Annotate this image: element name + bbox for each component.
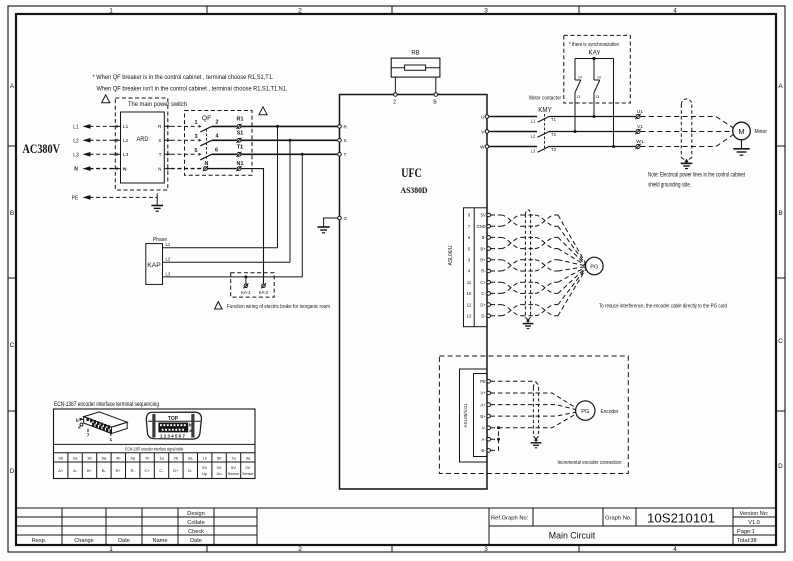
terminal UFC T	[338, 153, 342, 157]
svg-text:2: 2	[298, 8, 302, 15]
wire N to N1	[208, 168, 237, 170]
svg-text:T1: T1	[551, 117, 557, 122]
wire W1 to motor (dashed)	[641, 135, 733, 147]
svg-text:C: C	[778, 338, 783, 345]
junction A- jumper	[497, 438, 500, 441]
svg-text:Version No:: Version No:	[740, 511, 769, 517]
svg-text:B-: B-	[102, 468, 107, 473]
svg-text:C+: C+	[480, 280, 486, 285]
svg-text:L3: L3	[166, 271, 171, 276]
ECN table signal row	[58, 465, 254, 476]
svg-text:C: C	[10, 342, 15, 349]
zone ticks right	[776, 146, 785, 411]
svg-text:T3: T3	[551, 147, 557, 152]
svg-text:C+: C+	[144, 468, 150, 473]
svg-text:B+: B+	[481, 246, 487, 251]
terminal UFC R	[338, 125, 342, 129]
wire ARD N to QF	[171, 168, 203, 170]
wire B+ to encoder (dashed)	[491, 412, 576, 416]
ground under motor	[733, 140, 749, 155]
svg-text:0V: 0V	[217, 465, 222, 470]
svg-text:A+: A+	[58, 468, 64, 473]
svg-text:L1: L1	[166, 242, 171, 247]
svg-text:7a: 7a	[231, 455, 236, 460]
svg-text:C-: C-	[159, 468, 164, 473]
svg-text:Motor: Motor	[755, 129, 768, 135]
wire T1 to UFC T	[241, 153, 337, 155]
wire L1 to ARD (dashed)	[90, 125, 116, 127]
svg-text:KA-1: KA-1	[241, 290, 251, 295]
svg-text:Design: Design	[187, 511, 204, 517]
encoder strip terminal circles	[487, 380, 491, 453]
svg-text:3a: 3a	[246, 455, 251, 460]
svg-text:T: T	[159, 152, 162, 158]
svg-text:B: B	[778, 210, 782, 217]
svg-text:ECN-1387 encoder interface sig: ECN-1387 encoder interface signal table	[125, 447, 183, 452]
wire S tap down to KAP L2	[289, 140, 291, 262]
wire U to KMY L1	[489, 116, 537, 118]
PG terminal strip ASL06/U	[464, 208, 488, 327]
wire G to ground	[324, 218, 338, 227]
svg-text:B+: B+	[87, 468, 93, 473]
svg-text:RB: RB	[411, 51, 419, 57]
warning triangle 2	[259, 107, 267, 115]
terminal KA-2	[261, 283, 266, 288]
svg-text:3: 3	[195, 134, 198, 140]
svg-text:QF: QF	[202, 115, 212, 122]
svg-text:V+: V+	[480, 391, 486, 396]
encoder cable pair R+/R-	[491, 260, 586, 271]
svg-text:b: b	[76, 418, 79, 423]
svg-text:ECN-1387 encoder interface ter: ECN-1387 encoder interface terminal sequ…	[54, 401, 159, 408]
QF linkage (dashed)	[205, 129, 207, 160]
resistor element	[405, 65, 426, 70]
ground motor shield	[681, 160, 693, 169]
svg-text:Collate: Collate	[187, 520, 204, 526]
wire A+ to encoder (dashed)	[491, 405, 576, 410]
svg-text:L3: L3	[531, 148, 536, 153]
svg-text:13: 13	[467, 314, 472, 319]
svg-text:A+: A+	[480, 402, 486, 407]
terminal V1	[635, 129, 640, 134]
note: QF breaker placement	[93, 74, 288, 93]
terminal UFC S	[338, 139, 342, 143]
svg-text:AC380V: AC380V	[23, 142, 61, 156]
svg-text:0V: 0V	[245, 465, 250, 470]
QF pole 1-2 (R)	[195, 120, 219, 132]
terminal UFC V	[485, 130, 489, 134]
svg-text:R: R	[158, 124, 162, 130]
version / page box	[737, 511, 769, 544]
svg-text:B-: B-	[482, 235, 487, 240]
KAY right wire to W line	[613, 59, 615, 147]
junction on L3	[244, 275, 247, 278]
svg-text:2a: 2a	[73, 455, 78, 460]
ECN table pin row	[58, 455, 250, 460]
inverter UFC AS380D body	[340, 95, 488, 490]
wire B- jumper (dashed)	[491, 428, 499, 451]
strip divider	[473, 208, 475, 327]
svg-text:KAY: KAY	[589, 50, 602, 57]
svg-text:KMY: KMY	[538, 107, 552, 114]
junction KAY left to V line	[574, 130, 577, 133]
encoder cable shield	[533, 381, 538, 439]
top view pin block	[158, 423, 188, 433]
breaker QF enclosure (dashed)	[185, 111, 253, 176]
power switch ARD body	[121, 112, 165, 183]
arrow PE	[83, 195, 91, 200]
wire L2 to ARD	[90, 139, 116, 141]
wire QF 4 to terminal S1	[212, 139, 237, 141]
svg-text:PG: PG	[581, 409, 589, 415]
wire T1 to U1	[549, 116, 636, 118]
title block grid	[16, 508, 776, 545]
KAY contact middle (13-14)	[594, 59, 600, 117]
top view side bars	[152, 414, 155, 438]
zone letters left	[10, 83, 15, 475]
svg-text:Sensor: Sensor	[242, 472, 254, 476]
svg-text:L2: L2	[166, 257, 171, 262]
svg-text:Motor contactor: Motor contactor	[529, 96, 561, 102]
svg-text:B+: B+	[480, 414, 486, 419]
wire RB to terminal B	[435, 77, 437, 93]
svg-text:T2: T2	[551, 132, 557, 137]
svg-text:U: U	[481, 114, 485, 120]
svg-text:1: 1	[110, 437, 113, 443]
encoder cable pair D+/D-	[491, 269, 586, 316]
svg-text:5V: 5V	[202, 465, 207, 470]
svg-text:S1: S1	[237, 131, 244, 137]
svg-text:A-: A-	[73, 468, 78, 473]
svg-text:1: 1	[195, 120, 198, 126]
svg-text:S: S	[158, 138, 161, 144]
svg-text:R1: R1	[237, 117, 244, 123]
svg-text:N: N	[205, 161, 209, 167]
svg-text:* When QF breaker is in the co: * When QF breaker is in the control cabi…	[93, 74, 274, 81]
terminal KA-1	[243, 283, 248, 288]
svg-text:ASL06/V.01: ASL06/V.01	[463, 403, 468, 428]
svg-text:Sensor: Sensor	[228, 472, 240, 476]
svg-text:R+: R+	[480, 258, 486, 263]
resistor leads	[391, 67, 440, 69]
wire V+ to encoder (dashed)	[491, 393, 576, 408]
svg-text:5: 5	[195, 148, 198, 154]
wire down to KA-1	[245, 277, 247, 284]
wire S1 to UFC S	[241, 139, 337, 141]
svg-text:Main Circuit: Main Circuit	[549, 531, 596, 541]
svg-text:1b: 1b	[202, 455, 207, 460]
wire N1 down to KA-2	[241, 169, 264, 284]
top view band line	[148, 420, 201, 422]
svg-text:W: W	[480, 144, 485, 150]
brake wiring enclosure KA (dashed)	[231, 273, 275, 297]
svg-text:Function wiring of electric br: Function wiring of electric brake for in…	[227, 304, 330, 310]
svg-text:5a: 5a	[102, 455, 107, 460]
ARD enclosure (dashed)	[115, 98, 168, 190]
svg-text:Incremental encoder connection: Incremental encoder connection	[558, 460, 622, 466]
junction V- jumper	[497, 426, 500, 429]
wire U1 to motor (dashed)	[641, 117, 733, 128]
svg-text:GND: GND	[476, 224, 485, 229]
svg-text:1234567: 1234567	[160, 433, 186, 438]
wire QF 2 to terminal R1	[212, 125, 237, 127]
wire T2 to V1	[549, 131, 636, 133]
svg-text:L1: L1	[531, 118, 536, 123]
terminal S1	[236, 138, 241, 143]
svg-text:3: 3	[484, 8, 488, 15]
wire R1 to UFC R	[241, 125, 337, 127]
KMY contact L3-T3	[538, 147, 550, 153]
encoder strip pin labels	[480, 379, 486, 453]
svg-text:D: D	[10, 468, 15, 475]
ARD pin labels right R S T N	[158, 124, 162, 172]
svg-text:L2: L2	[73, 138, 79, 144]
svg-text:1: 1	[109, 8, 113, 15]
connector pins (iso)	[87, 418, 112, 434]
svg-text:Encoder: Encoder	[601, 409, 619, 415]
junction S tap	[289, 139, 292, 142]
zone ticks top	[207, 6, 579, 14]
junction KAY right to W line	[612, 145, 615, 148]
svg-text:7: 7	[87, 433, 90, 439]
svg-text:PE: PE	[72, 195, 79, 201]
svg-text:* there is synchronization: * there is synchronization	[569, 42, 619, 48]
junction T tap	[301, 153, 304, 156]
svg-text:2: 2	[216, 120, 219, 126]
KAY bus wire	[575, 58, 614, 60]
junction R tap	[276, 125, 279, 128]
svg-text:L2: L2	[123, 138, 129, 144]
svg-text:2: 2	[393, 100, 396, 106]
pin signal column	[476, 213, 486, 319]
svg-text:PG: PG	[590, 264, 598, 270]
svg-text:shield grounding side.: shield grounding side.	[648, 183, 691, 189]
wire ARD R to QF (dashed)	[171, 125, 198, 127]
svg-text:B-: B-	[482, 448, 487, 453]
svg-text:To reduce interference, the en: To reduce interference, the encoder cabl…	[599, 303, 727, 309]
svg-text:AS380D: AS380D	[401, 186, 428, 195]
svg-text:Check: Check	[188, 529, 204, 535]
svg-text:R+: R+	[116, 468, 122, 473]
svg-text:4: 4	[673, 8, 677, 15]
braking resistor RB box	[391, 58, 440, 77]
svg-text:7b: 7b	[145, 455, 150, 460]
zone ticks left	[8, 146, 16, 411]
ARD pin stubs left	[113, 125, 121, 170]
svg-text:N1: N1	[237, 161, 244, 167]
ECN connector isometric view	[84, 412, 128, 434]
wire RB to terminal 2	[394, 77, 396, 93]
svg-text:G: G	[344, 216, 348, 222]
svg-text:2b: 2b	[174, 455, 179, 460]
KAY contact left (13-14)	[575, 59, 581, 132]
zone numbers top	[109, 8, 677, 15]
wire V to KMY L2	[489, 131, 537, 133]
svg-text:Graph No.: Graph No.	[605, 516, 632, 522]
svg-text:4: 4	[673, 546, 677, 553]
svg-text:R-: R-	[481, 269, 486, 274]
ARD pin stubs right	[164, 125, 171, 170]
svg-text:13: 13	[596, 95, 600, 99]
zone numbers bottom	[109, 546, 677, 553]
svg-text:D-: D-	[481, 314, 486, 319]
svg-text:V-: V-	[482, 426, 487, 431]
PG card circle	[586, 257, 604, 275]
wire ARD S to QF	[171, 139, 198, 141]
svg-text:3: 3	[484, 546, 488, 553]
svg-text:C-: C-	[481, 291, 486, 296]
wire KAP L1	[163, 247, 278, 249]
ECN-1387 table lines	[54, 444, 256, 478]
encoder PG circle	[576, 401, 595, 420]
svg-text:Resp.: Resp.	[32, 538, 47, 544]
svg-text:2: 2	[298, 546, 302, 553]
svg-text:TOP: TOP	[168, 416, 179, 422]
svg-text:4b: 4b	[116, 455, 121, 460]
wire V- to encoder (dashed)	[491, 414, 576, 428]
wire QF 6 to terminal T1	[212, 153, 237, 155]
svg-text:A: A	[10, 83, 15, 90]
encoder cable pair C+/C-	[491, 267, 586, 293]
wire W to KMY L3	[489, 146, 537, 148]
svg-text:6a: 6a	[188, 455, 193, 460]
svg-text:KAP: KAP	[147, 262, 161, 269]
motor M	[733, 122, 751, 140]
svg-text:L3: L3	[73, 152, 79, 158]
svg-text:Note: Electrical power lines i: Note: Electrical power lines in the cont…	[648, 173, 745, 179]
svg-text:N: N	[158, 166, 162, 172]
svg-text:Up: Up	[202, 471, 208, 476]
arrow L2	[83, 138, 91, 143]
QF pole 5-6 (T)	[195, 148, 219, 160]
svg-text:6b: 6b	[58, 455, 63, 460]
svg-text:Ref.Graph No:: Ref.Graph No:	[491, 516, 529, 522]
terminal N (QF)	[203, 166, 208, 171]
svg-text:b: b	[189, 422, 192, 427]
title block small labels	[32, 511, 205, 544]
svg-text:L1: L1	[123, 124, 129, 130]
svg-text:5b: 5b	[217, 455, 222, 460]
wire KAP L2	[163, 261, 291, 263]
junction KAY middle to U line	[593, 115, 596, 118]
svg-text:V1: V1	[637, 124, 643, 130]
svg-text:When QF breaker isn't in the c: When QF breaker isn't in the control cab…	[97, 86, 288, 93]
wire N to ARD	[90, 168, 116, 170]
terminal 2 (UFC top)	[394, 93, 398, 97]
svg-text:S: S	[344, 138, 347, 144]
svg-text:1: 1	[109, 546, 113, 553]
encoder cable pair B-/B+	[491, 237, 586, 265]
junction KAY bus	[592, 57, 595, 60]
wire KAP L3	[163, 276, 303, 278]
ground under ARD (PE)	[151, 194, 163, 212]
zone ticks bottom	[207, 545, 579, 552]
QF pole 3-4 (S)	[195, 134, 219, 146]
phase relay KAP	[146, 244, 163, 285]
title block graph labels	[491, 516, 632, 522]
svg-text:L2: L2	[531, 133, 536, 138]
svg-text:14: 14	[597, 76, 601, 80]
KMY contact L2-T2	[538, 132, 550, 138]
svg-text:10S210101: 10S210101	[647, 511, 715, 526]
terminal circles PG strip	[487, 213, 491, 317]
ECN-1387 outer box	[54, 409, 256, 479]
svg-text:D+: D+	[173, 468, 179, 473]
svg-text:M: M	[738, 127, 744, 136]
svg-text:W1: W1	[636, 139, 644, 145]
svg-text:5V: 5V	[231, 465, 236, 470]
svg-text:ARD: ARD	[137, 136, 149, 143]
encoder cable pair 5V/GND (dashed, twisted)	[491, 215, 586, 264]
svg-text:UFC: UFC	[401, 166, 422, 180]
svg-text:14: 14	[578, 76, 582, 80]
arrow L1	[83, 124, 91, 129]
ARD pin labels left L1 L2 L3 N	[123, 124, 129, 172]
svg-text:D-: D-	[188, 468, 193, 473]
svg-text:6: 6	[215, 148, 218, 154]
zone letters right	[778, 83, 783, 470]
arrow N	[83, 166, 91, 171]
PG cable shield	[525, 210, 530, 320]
svg-text:5V: 5V	[481, 213, 486, 218]
terminal B (UFC top)	[434, 93, 438, 97]
wire PE (dashed)	[90, 196, 158, 198]
svg-text:Name: Name	[153, 538, 168, 544]
svg-text:3b: 3b	[87, 455, 92, 460]
encoder strip outer box	[460, 369, 488, 462]
svg-text:12: 12	[467, 302, 472, 307]
svg-text:D+: D+	[480, 302, 486, 307]
wire R tap down to KAP L1	[277, 126, 279, 247]
wire L3 to ARD	[90, 153, 116, 155]
svg-text:A: A	[778, 83, 783, 90]
ground PG shield	[523, 320, 534, 329]
svg-text:Total:38: Total:38	[737, 538, 757, 544]
ground at UFC G	[318, 227, 330, 233]
svg-text:V1.0: V1.0	[748, 520, 760, 526]
motor cable shield	[681, 99, 692, 161]
svg-text:B: B	[10, 210, 14, 217]
svg-text:Un: Un	[217, 471, 222, 476]
terminal U1	[635, 114, 640, 119]
KMY linkage (dashed)	[544, 114, 546, 151]
terminal UFC U	[485, 115, 489, 119]
wire T3 to W1	[549, 146, 636, 148]
wire T tap down to KAP L3	[301, 154, 303, 277]
svg-text:T1: T1	[237, 145, 243, 151]
terminal UFC G	[338, 216, 342, 220]
svg-text:10: 10	[467, 291, 472, 296]
svg-text:N: N	[123, 166, 127, 172]
svg-text:1a: 1a	[159, 455, 164, 460]
warning triangle 3	[215, 302, 223, 309]
ground encoder shield	[531, 439, 542, 448]
synchronization enclosure KAY (dashed)	[564, 35, 631, 103]
svg-text:11: 11	[467, 280, 472, 285]
svg-text:13: 13	[577, 95, 581, 99]
svg-text:R-: R-	[131, 468, 136, 473]
svg-text:4a: 4a	[130, 455, 135, 460]
warning triangle 1	[102, 95, 110, 103]
svg-text:L1: L1	[73, 124, 79, 130]
wire A- stub (dashed)	[491, 438, 499, 440]
ECN connector top view outline	[146, 412, 201, 439]
wire PE to shield (dashed)	[491, 380, 537, 382]
svg-text:R: R	[344, 124, 348, 130]
wire V1 to motor (dashed)	[641, 131, 733, 133]
pin numbers column	[467, 213, 472, 319]
encoder strip inner box	[474, 374, 488, 457]
